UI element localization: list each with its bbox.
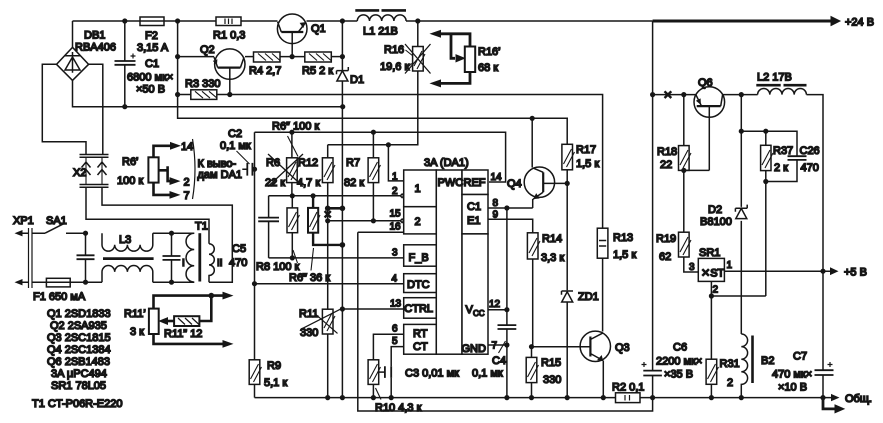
svg-text:R15: R15	[541, 357, 561, 369]
resistor R13 1,5k	[597, 228, 636, 331]
svg-text:R11’: R11’	[124, 308, 146, 320]
wire bridge bottom vertex to negative rail y=106.7	[73, 80, 343, 106]
node dot pin1 junction on R16 line	[386, 142, 391, 147]
svg-text:SR1 78L05: SR1 78L05	[51, 380, 106, 392]
node dot pin15/R7	[371, 218, 376, 223]
diode D2 B8100	[700, 204, 747, 228]
wire pin9 line to R14	[488, 219, 533, 233]
wire R5 right to D1 node	[331, 56, 342, 58]
wire pin2 line	[269, 195, 401, 197]
node diamond pin15	[400, 219, 404, 223]
svg-text:14: 14	[181, 141, 193, 153]
plug XP1	[13, 215, 46, 288]
svg-text:6800 мк×: 6800 мк×	[127, 72, 173, 84]
svg-text:Q2 2SA935: Q2 2SA935	[50, 320, 107, 332]
svg-text:C1: C1	[467, 201, 481, 213]
bridge rectifier DB1 RBA406	[57, 30, 116, 81]
svg-text:+24 В: +24 В	[845, 17, 874, 29]
resistor R4 2,7	[249, 52, 281, 77]
svg-text:RBA406: RBA406	[75, 42, 116, 54]
capacitor line filter cap 2	[163, 233, 181, 282]
svg-text:PWC: PWC	[438, 177, 464, 189]
node +24V rail bold segment with arrow	[653, 17, 840, 26]
svg-text:R4 2,7: R4 2,7	[249, 65, 281, 77]
svg-text:T1: T1	[195, 221, 208, 233]
svg-text:R7: R7	[346, 157, 360, 169]
resistor R12 4,7k	[297, 145, 335, 221]
wire pin15 line	[328, 220, 401, 222]
wire AC top line segments	[153, 232, 194, 234]
svg-text:3A μPC494: 3A μPC494	[51, 368, 107, 380]
wire pin12 stub	[488, 309, 507, 311]
zener ZD1	[562, 291, 599, 303]
svg-text:DB1: DB1	[84, 30, 105, 42]
svg-text:R3 330: R3 330	[185, 78, 220, 90]
node dot pin13/common	[340, 306, 345, 311]
svg-text:Q4: Q4	[507, 178, 522, 190]
svg-text:1,5 к: 1,5 к	[576, 158, 599, 170]
resistor R8 100k	[287, 196, 300, 258]
fuse F1 650mA	[33, 278, 102, 303]
svg-text:5,1 к: 5,1 к	[264, 377, 287, 389]
capacitor C2 0,1mk	[220, 128, 255, 176]
node dot R6 top	[289, 130, 294, 135]
capacitor C4 0,1mk	[472, 325, 516, 379]
svg-text:7: 7	[492, 341, 498, 352]
wire L2 right end down +5V vertical	[807, 95, 824, 371]
svg-text:C3 0,01 мк: C3 0,01 мк	[405, 368, 459, 380]
capacitor C6 2200mk x35V	[642, 342, 703, 398]
transistor Q6	[694, 77, 725, 170]
svg-text:19,6 к: 19,6 к	[380, 61, 409, 73]
svg-text:R6’: R6’	[122, 156, 139, 168]
svg-text:R11: R11	[299, 308, 318, 320]
svg-text:470 мк×: 470 мк×	[772, 369, 812, 381]
voltage regulator SR1 78L05	[689, 247, 733, 296]
resistor R6 22k (crossed out, R6'' 100k written)	[265, 132, 303, 196]
wire bold tick R12 to common vertical	[328, 207, 343, 210]
svg-text:ZD1: ZD1	[578, 291, 599, 303]
node cut mark X on R12 lower lead	[325, 211, 331, 218]
svg-text:4: 4	[392, 274, 398, 285]
svg-text:C7: C7	[793, 351, 807, 363]
connector X2	[73, 155, 109, 188]
svg-text:L1 21В: L1 21В	[363, 26, 398, 38]
svg-text:2: 2	[727, 377, 733, 389]
svg-text:дам DA1: дам DA1	[198, 169, 243, 181]
transistor Q2	[200, 44, 245, 95]
svg-text:SA1: SA1	[46, 215, 67, 227]
svg-text:×50 В: ×50 В	[136, 84, 165, 96]
wire vertical x=177.6 from rail to y=118.3 then right	[178, 21, 568, 118]
wire Q3 base line	[532, 346, 591, 348]
svg-text:F_B: F_B	[409, 252, 429, 264]
svg-text:0,1 мк: 0,1 мк	[472, 368, 503, 380]
svg-text:3,15 A: 3,15 A	[137, 42, 169, 54]
wire Vcc vertical x=506.9	[506, 208, 508, 398]
svg-text:R13: R13	[613, 232, 633, 244]
svg-text:REF: REF	[464, 177, 486, 189]
svg-text:Q6: Q6	[698, 77, 713, 89]
svg-text:CTRL: CTRL	[404, 303, 433, 315]
node dot R37 branch	[739, 129, 744, 134]
svg-text:2 к: 2 к	[774, 162, 788, 174]
switch SA1	[45, 215, 86, 233]
wire R3 row continues to x=602 then down	[230, 95, 603, 229]
node dot R8 top	[290, 193, 295, 198]
node dot Q4 base / R17 bottom	[565, 181, 570, 186]
wire pin8 line	[488, 207, 533, 209]
svg-text:GND: GND	[462, 343, 487, 355]
resistor R14 3,3k	[527, 233, 564, 347]
resistor R6''' 36k (bold added)	[308, 196, 342, 245]
wire left end of rail down to bridge	[72, 21, 74, 47]
svg-text:22 к: 22 к	[265, 177, 285, 189]
wire SR1 pin1 to +5V arrow	[724, 270, 830, 272]
svg-text:7: 7	[184, 190, 190, 202]
svg-text:E1: E1	[467, 215, 480, 227]
wire pin4 DTC line	[255, 283, 404, 285]
svg-text:470: 470	[801, 162, 819, 174]
svg-text:R16’: R16’	[478, 46, 501, 58]
node dot R5/D1	[340, 54, 345, 59]
svg-text:×10 В: ×10 В	[778, 382, 807, 394]
svg-text:R11” 12: R11” 12	[164, 328, 202, 340]
wire pin13 line	[342, 308, 403, 310]
capacitor C7 470mk x10V	[772, 351, 834, 398]
svg-text:68 к: 68 к	[478, 62, 498, 74]
svg-text:Q3 2SC1815: Q3 2SC1815	[47, 332, 111, 344]
wire detour line bottom	[358, 232, 653, 411]
svg-text:2: 2	[713, 285, 719, 296]
svg-text:C2: C2	[228, 128, 242, 140]
svg-text:B8100: B8100	[700, 216, 732, 228]
wire bridge right AC vertex down to X2 right	[89, 64, 103, 154]
svg-text:1: 1	[392, 172, 398, 183]
svg-text:2: 2	[184, 177, 190, 189]
svg-text:I: I	[182, 258, 185, 269]
svg-text:D2: D2	[708, 204, 722, 216]
potentiometer R16' 68k (bold added)	[431, 31, 475, 87]
svg-text:2: 2	[415, 216, 421, 228]
svg-text:R18: R18	[657, 146, 677, 158]
svg-text:C5: C5	[232, 243, 246, 255]
node dot SR1 pin2	[709, 293, 714, 298]
wire R18 bottom to Q6 base	[684, 169, 710, 171]
node dots on left rail	[325, 395, 330, 400]
wire bridge left AC vertex to X2 left	[42, 64, 86, 154]
svg-text:L2 17В: L2 17В	[757, 72, 792, 84]
inductor L1 21V	[355, 10, 406, 37]
svg-text:R14: R14	[542, 233, 562, 245]
svg-text:R16: R16	[384, 44, 404, 56]
svg-text:Q2: Q2	[200, 44, 215, 56]
wire AC bottom line segments	[153, 281, 194, 283]
resistor R18 22	[657, 95, 691, 233]
svg-text:R5 2 к: R5 2 к	[302, 65, 333, 77]
resistor R5 2k	[302, 52, 333, 77]
inductor L2 17V	[756, 72, 806, 95]
svg-text:L3: L3	[119, 234, 131, 246]
wire bottom rail left part	[255, 397, 616, 399]
transistor Q1	[277, 14, 325, 57]
svg-text:×35 В: ×35 В	[664, 369, 693, 381]
potentiometer R11 330 (crossed out)	[299, 221, 340, 398]
svg-text:DTC: DTC	[407, 279, 430, 291]
resistor R31 2	[706, 358, 740, 398]
svg-text:R2 0,1: R2 0,1	[612, 382, 644, 394]
svg-text:R37: R37	[773, 145, 793, 157]
node dot Q2 base / R3 right	[227, 92, 232, 97]
wire bold common elbow arrow	[823, 398, 844, 413]
svg-text:3 к: 3 к	[130, 326, 144, 338]
node dot Q1 base junction	[290, 54, 295, 59]
resistor R37 2k	[761, 131, 794, 296]
svg-text:2200 мк×: 2200 мк×	[656, 356, 702, 368]
node dot R37 bottom	[763, 179, 768, 184]
wire Q6 feed line	[653, 94, 696, 96]
svg-text:330: 330	[300, 327, 318, 339]
transistor Q3	[580, 331, 630, 398]
inductor L3 common-mode choke	[102, 233, 154, 282]
node cut mark X on Q6 feed	[665, 91, 672, 98]
svg-text:Q1 2SD1833: Q1 2SD1833	[47, 308, 111, 320]
resistor R1 0,3	[213, 17, 245, 42]
svg-text:R9: R9	[267, 360, 281, 372]
wire pin16 line	[358, 231, 404, 233]
resistor R7 82k	[344, 132, 381, 221]
svg-text:1: 1	[415, 183, 421, 195]
wire top rail thin from bridge top to +24V junction	[73, 20, 653, 22]
node dot Q2 emitter branch	[175, 54, 180, 59]
node junction dot rail/C1	[122, 18, 127, 23]
wire x=254.5 vertical C2/R9	[254, 132, 256, 360]
svg-text:R17: R17	[576, 144, 596, 156]
wire pin7 GND stub	[488, 344, 507, 346]
svg-text:2: 2	[392, 186, 398, 197]
wire X2 right down to AC outer route	[102, 187, 232, 282]
svg-text:4,7 к: 4,7 к	[297, 177, 320, 189]
svg-text:Q3: Q3	[615, 342, 630, 354]
svg-text:R31: R31	[720, 358, 740, 370]
transistor Q4	[507, 167, 567, 208]
svg-text:Q1: Q1	[311, 23, 326, 35]
svg-text:T1 CT-P06R-E220: T1 CT-P06R-E220	[32, 398, 122, 410]
svg-text:1,5 к: 1,5 к	[613, 249, 636, 261]
resistor R3 330	[178, 78, 230, 99]
node dot +5V vertical junction	[820, 269, 825, 274]
node dots on right rail	[650, 395, 655, 400]
resistor R17 1,5k	[562, 118, 599, 397]
svg-text:F1 650 мА: F1 650 мА	[33, 291, 86, 303]
node dot R18 bottom	[681, 168, 686, 173]
capacitor C3 0,01mk	[379, 347, 459, 398]
svg-text:3: 3	[689, 262, 695, 273]
node dot R6''' top	[311, 193, 316, 198]
resistor R16 19,6k (crossed out)	[328, 21, 431, 145]
wire bottom common rail right part	[640, 397, 831, 399]
svg-text:D1: D1	[350, 74, 364, 86]
node dot Q6 branch	[650, 92, 655, 97]
svg-text:C6: C6	[673, 342, 687, 354]
svg-text:II: II	[217, 258, 223, 269]
node junction dot C1 bottom	[122, 104, 127, 109]
svg-text:100 к: 100 к	[117, 175, 143, 187]
svg-text:CT: CT	[413, 341, 428, 353]
wire SR1 pin2 down and right	[711, 281, 765, 359]
svg-text:1: 1	[727, 260, 733, 271]
svg-text:C4: C4	[492, 355, 506, 367]
capacitor C5 470	[229, 196, 279, 269]
node dot R8 bottom	[290, 255, 295, 260]
svg-text:R6: R6	[266, 157, 280, 169]
resistor R15 330	[526, 347, 561, 398]
node dot D1 top on rail	[340, 18, 345, 23]
svg-text:+5 В: +5 В	[844, 267, 867, 279]
node dot D1 on neg rail	[340, 104, 345, 109]
wire divider line y=132.2 from x=254.5 to pin14 corner	[255, 132, 506, 182]
svg-text:CC: CC	[473, 309, 485, 318]
resistor R9 5,1k	[249, 360, 287, 398]
svg-text:5: 5	[392, 336, 398, 347]
svg-text:C1: C1	[145, 58, 159, 70]
node dot R3 left	[175, 92, 180, 97]
svg-text:✕ST: ✕ST	[701, 268, 725, 280]
node junction dot rail x=177.6	[175, 18, 180, 23]
node dot pin4 line left end	[252, 281, 257, 286]
node dot R37 top	[763, 129, 768, 134]
svg-text:C26: C26	[800, 145, 820, 157]
svg-text:Общ.: Общ.	[845, 393, 872, 405]
svg-text:R10 4,3 к: R10 4,3 к	[375, 402, 422, 414]
svg-text:R12: R12	[298, 157, 318, 169]
fuse F2 3,15 A	[137, 17, 169, 54]
capacitor C26 470	[766, 145, 820, 182]
node diamond pin2	[400, 194, 404, 198]
wire Q2 emitter to x=177.6	[178, 56, 215, 58]
transformer T1	[182, 221, 223, 283]
wire Q6 collector to L2	[723, 94, 758, 96]
wire R4 to R5 through Q1 base node	[280, 56, 305, 58]
wire R37/C26 top feed	[741, 131, 797, 156]
svg-text:330: 330	[543, 374, 561, 386]
wire D2 branch vertical	[740, 95, 742, 334]
svg-text:12: 12	[489, 299, 501, 310]
resistor R2 0,1	[612, 382, 644, 403]
svg-text:3A (DA1): 3A (DA1)	[424, 157, 469, 169]
svg-text:R6″ 100 к: R6″ 100 к	[272, 121, 319, 133]
svg-text:22: 22	[660, 159, 672, 171]
svg-text:16: 16	[390, 222, 402, 233]
svg-text:Q6 2SB1483: Q6 2SB1483	[47, 356, 110, 368]
svg-text:15: 15	[390, 209, 402, 220]
resistor R19 62	[656, 232, 691, 263]
node dot pin15/R12	[325, 218, 330, 223]
svg-text:F2: F2	[145, 30, 158, 42]
wire pin1 elbow	[388, 145, 403, 181]
node dot Q6 collector / D2 branch	[739, 92, 744, 97]
svg-text:XP1: XP1	[13, 215, 34, 227]
inductor B2 with core	[741, 334, 774, 398]
wire Q4 collector up	[531, 118, 533, 167]
resistor R10 4,3k	[368, 334, 421, 414]
capacitor line filter cap 1	[77, 233, 95, 282]
node dot pin8/Vcc vertical	[504, 205, 509, 210]
potentiometer R11' 3k with R11'' 12 (bold added)	[149, 292, 232, 347]
node dot C2 junction	[252, 167, 257, 172]
wire X2 left down to AC top route	[86, 187, 209, 243]
node dot R7 top	[371, 130, 376, 135]
svg-text:Q4 2SC1384: Q4 2SC1384	[47, 344, 111, 356]
bracket to DA1 note	[193, 139, 196, 199]
svg-text:X2: X2	[73, 167, 86, 179]
node dot L1 right / R16 top	[415, 18, 420, 23]
svg-text:13: 13	[390, 299, 402, 310]
svg-text:R1 0,3: R1 0,3	[213, 30, 245, 42]
svg-text:0,1 мк: 0,1 мк	[220, 140, 251, 152]
wire Q2 collector to R4	[245, 56, 254, 58]
svg-text:14: 14	[491, 172, 503, 183]
svg-text:82 к: 82 к	[344, 177, 364, 189]
svg-text:RT: RT	[413, 328, 428, 340]
svg-text:R6‴ 36 к: R6‴ 36 к	[289, 272, 330, 284]
svg-text:3: 3	[392, 248, 398, 259]
node dot R18 top	[681, 92, 686, 97]
potentiometer R6' 100k to DA1 pins (bold added)	[148, 143, 179, 199]
svg-text:6: 6	[392, 324, 398, 335]
wire +24V vertical x=652.6 down to C6	[652, 21, 654, 370]
svg-text:R19: R19	[656, 233, 676, 245]
wire pin3 line from C5 bottom	[269, 257, 404, 259]
capacitor C1 6800mk x50V electrolytic	[115, 21, 174, 107]
svg-text:62: 62	[659, 251, 671, 263]
svg-text:SR1: SR1	[699, 247, 720, 259]
svg-text:B2: B2	[761, 355, 774, 367]
diode D1	[337, 21, 365, 398]
op-amp/PWM IC DA1 uPC494 outline	[404, 157, 488, 355]
svg-text:3,3 к: 3,3 к	[541, 252, 564, 264]
wire R19 bottom to SR1 pin3	[684, 257, 699, 272]
